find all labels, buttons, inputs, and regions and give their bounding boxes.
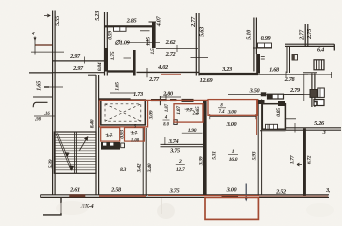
svg-text:2.77: 2.77 — [148, 76, 160, 83]
svg-text:2.61: 2.61 — [69, 187, 80, 194]
svg-text:.16: .16 — [44, 112, 51, 117]
svg-text:0.99: 0.99 — [261, 35, 272, 42]
svg-text:2.75: 2.75 — [306, 29, 313, 40]
svg-text:5.23: 5.23 — [94, 11, 101, 21]
svg-text:2.78: 2.78 — [284, 76, 296, 83]
svg-text:0.85: 0.85 — [276, 108, 282, 117]
svg-text:12.7: 12.7 — [176, 167, 185, 173]
svg-text:4.02: 4.02 — [157, 64, 168, 71]
svg-text:1.08: 1.08 — [131, 139, 140, 144]
svg-text:8.40: 8.40 — [90, 119, 96, 128]
svg-text:3.75: 3.75 — [169, 188, 180, 195]
svg-text:4.07: 4.07 — [155, 15, 162, 27]
svg-text:7.4: 7.4 — [219, 110, 226, 115]
svg-text:3.42: 3.42 — [136, 163, 142, 173]
svg-text:5.93: 5.93 — [251, 151, 257, 160]
svg-text:3.74: 3.74 — [168, 138, 179, 145]
svg-text:1.87: 1.87 — [176, 106, 182, 115]
svg-text:6.72: 6.72 — [307, 155, 313, 164]
svg-text:0.93: 0.93 — [119, 130, 125, 139]
svg-text:6.4: 6.4 — [317, 47, 324, 54]
svg-text:3.00: 3.00 — [226, 121, 238, 128]
svg-text:5.31: 5.31 — [211, 151, 217, 160]
svg-text:1.15: 1.15 — [146, 37, 152, 46]
svg-text:0.84: 0.84 — [97, 62, 103, 71]
svg-text:3.50: 3.50 — [249, 87, 261, 94]
svg-text:1.77: 1.77 — [290, 155, 296, 164]
svg-text:2.85: 2.85 — [126, 18, 137, 25]
svg-text:3.75: 3.75 — [169, 148, 180, 155]
svg-text:2.79: 2.79 — [289, 87, 301, 94]
svg-text:,98: ,98 — [34, 117, 42, 122]
svg-text:1.5: 1.5 — [150, 48, 156, 55]
svg-text:2.97: 2.97 — [72, 65, 84, 72]
svg-text:1.75: 1.75 — [110, 51, 116, 60]
svg-text:1.87: 1.87 — [165, 103, 170, 112]
svg-text:3.09: 3.09 — [149, 110, 155, 120]
svg-text:2.2: 2.2 — [192, 112, 200, 117]
svg-text:2.52: 2.52 — [275, 189, 286, 196]
svg-text:1.65: 1.65 — [36, 81, 43, 91]
svg-text:5.55: 5.55 — [54, 16, 61, 26]
svg-text:1.73: 1.73 — [133, 91, 143, 98]
svg-text:8.3: 8.3 — [120, 167, 127, 173]
svg-text:∅1.09: ∅1.09 — [114, 40, 130, 47]
svg-text:3.40: 3.40 — [147, 163, 153, 173]
svg-text:5.10: 5.10 — [246, 29, 253, 40]
svg-text:5.63: 5.63 — [199, 27, 206, 37]
svg-text:8.0: 8.0 — [163, 123, 170, 128]
svg-text:7.7: 7.7 — [186, 108, 193, 114]
svg-text:2.77: 2.77 — [190, 16, 197, 28]
svg-text:1.65: 1.65 — [114, 82, 120, 91]
svg-text:12.69: 12.69 — [200, 77, 214, 84]
svg-text:2.72: 2.72 — [165, 51, 176, 58]
svg-text:3: 3 — [322, 129, 326, 136]
svg-text:2.58: 2.58 — [110, 186, 122, 193]
svg-text:2.97: 2.97 — [69, 53, 81, 60]
svg-text:0.59: 0.59 — [107, 31, 113, 40]
svg-text:16.0: 16.0 — [229, 157, 238, 163]
svg-text:2.62: 2.62 — [165, 39, 176, 46]
svg-text:3.39: 3.39 — [199, 156, 205, 166]
svg-text:1.68: 1.68 — [269, 67, 280, 74]
svg-text:2.80: 2.80 — [162, 91, 174, 98]
svg-text:3,: 3, — [325, 187, 331, 194]
svg-text:2.77: 2.77 — [299, 29, 306, 41]
svg-text:5.39: 5.39 — [48, 159, 54, 168]
svg-text:3.00: 3.00 — [227, 110, 237, 116]
svg-text:5.26: 5.26 — [314, 120, 325, 127]
svg-text:3.00: 3.00 — [226, 186, 238, 193]
svg-text:2: 2 — [178, 159, 182, 165]
svg-text:1.90: 1.90 — [188, 128, 197, 134]
svg-text:3.23: 3.23 — [221, 66, 232, 73]
